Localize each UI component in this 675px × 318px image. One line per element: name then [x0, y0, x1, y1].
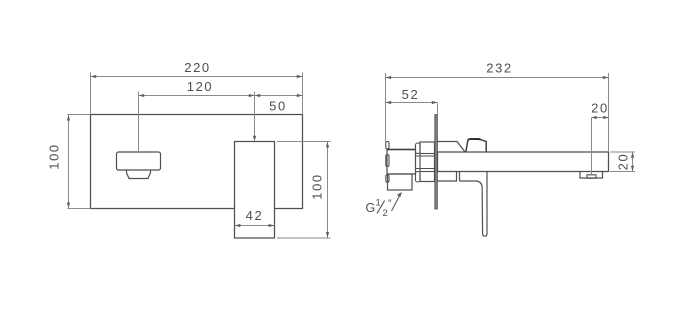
right view: lever neck line: [459, 172, 461, 182]
right view: valve inlet pipe: [387, 150, 416, 175]
dim 52: left arrow: [386, 101, 392, 104]
label G1/2": leader arrow: [397, 192, 402, 197]
dim 100 left: bottom arrow: [67, 203, 70, 209]
dim 52: dimension line: [386, 102, 438, 104]
dim 120: left extension line down to handle: [138, 92, 140, 153]
dim 220: left arrow: [91, 75, 97, 78]
dim 50: right arrow: [297, 94, 303, 97]
svg-text:″: ″: [388, 199, 392, 210]
dim 42: right arrow: [269, 224, 275, 227]
left view: wall plate rectangle: [91, 115, 303, 209]
left view: spout rectangle: [235, 142, 275, 239]
right view: inlet thread tab middle: [386, 155, 389, 167]
dim 20 top: left arrow: [592, 116, 597, 119]
svg-text:120: 120: [187, 79, 214, 94]
svg-text:20: 20: [615, 153, 630, 171]
dim 120: dimension line: [139, 95, 255, 97]
right view: cartridge stem line upper: [416, 155, 435, 157]
dim 100 left: bottom extension line: [68, 208, 91, 210]
right view: inlet thread tab bottom: [386, 175, 389, 182]
dim 20 top: extension line down to aerator: [591, 118, 593, 175]
right view: body step below spout: [437, 172, 456, 182]
svg-text:1: 1: [376, 198, 381, 209]
dim 120: right arrow: [249, 94, 255, 97]
svg-text:100: 100: [310, 173, 325, 200]
right view: inlet thread tab top: [386, 142, 389, 149]
dim 232/52: left extension line: [385, 73, 387, 142]
dim 20 right: top arrow: [631, 152, 634, 158]
right view: flange tab upper: [416, 143, 421, 154]
dim 220: left extension line: [90, 73, 92, 115]
right view: mounting body block: [420, 142, 435, 182]
svg-text:G: G: [366, 201, 376, 215]
label G1/2": fraction slash: [377, 201, 385, 214]
dim 42: dimension line: [235, 225, 275, 227]
dim 20 right: bottom extension line: [610, 171, 635, 173]
svg-text:232: 232: [486, 61, 513, 76]
svg-text:50: 50: [269, 99, 287, 114]
dim 100 left: dimension line: [68, 115, 70, 208]
svg-text:2: 2: [383, 208, 388, 219]
dim 20 right: dimension line: [632, 152, 634, 171]
right view: handle dome dark top: [468, 139, 481, 140]
dim 120: left arrow: [139, 94, 145, 97]
left view: handle base escutcheon: [127, 170, 151, 178]
dim 220: right arrow: [297, 75, 303, 78]
right view: aerator outer: [580, 172, 603, 179]
svg-text:52: 52: [402, 87, 420, 102]
dim 100 right: top extension line: [277, 141, 331, 143]
dim 100 right: top arrow: [326, 142, 329, 148]
dim 100 right: dimension line: [327, 142, 329, 238]
dim 100 right: bottom extension line: [277, 237, 331, 239]
dim 20 top: dimension line: [592, 117, 609, 119]
right view: mounting body inner line lower: [420, 171, 435, 173]
right view: flange tab lower: [416, 172, 421, 183]
dim 50: dimension line: [255, 95, 303, 97]
dim 50: left arrow: [255, 94, 261, 97]
dim 20 right: top extension line: [610, 151, 635, 153]
right view: lower valve block (G1/2 connection): [388, 174, 413, 190]
left view: handle knob: [117, 152, 161, 170]
svg-text:20: 20: [591, 101, 609, 116]
dim 220/50: right extension line: [302, 73, 304, 115]
dim 232: right arrow: [603, 76, 609, 79]
right view: wall plate (side): [435, 115, 438, 210]
svg-text:42: 42: [246, 208, 264, 223]
dim 52: right arrow: [432, 101, 438, 104]
right view: body above spout with chamfer: [437, 142, 465, 153]
right view: spout bar: [438, 152, 609, 172]
spout centre arrow on spout top: [253, 136, 256, 142]
label G1/2": leader line: [392, 194, 401, 211]
right view: aerator inner insert: [587, 175, 596, 178]
right view: handle dome: [466, 139, 486, 152]
dim 232: dimension line: [386, 77, 609, 79]
dim 100 left: top extension line: [68, 114, 91, 116]
right view: mounting body inner line upper: [420, 153, 435, 155]
dim 120/50: middle extension line down to spout: [254, 92, 256, 137]
dim 220: dimension line: [91, 76, 303, 78]
svg-text:220: 220: [184, 60, 211, 75]
svg-text:100: 100: [47, 143, 62, 170]
right view: inlet pipe top thick edge: [387, 149, 416, 151]
dim 100 left: top arrow: [67, 115, 70, 121]
dim 232: left arrow: [386, 76, 392, 79]
dim 42: left arrow: [235, 224, 241, 227]
right view: cartridge stem line lower: [416, 168, 435, 170]
dim 52: right extension line: [437, 103, 439, 115]
right view: lever handle: [460, 172, 488, 237]
dim 100 right: bottom arrow: [326, 232, 329, 238]
dim 232: right extension line: [608, 73, 610, 152]
dim 20 top: right arrow: [603, 116, 608, 119]
dim 20 right: bottom arrow: [631, 166, 634, 172]
